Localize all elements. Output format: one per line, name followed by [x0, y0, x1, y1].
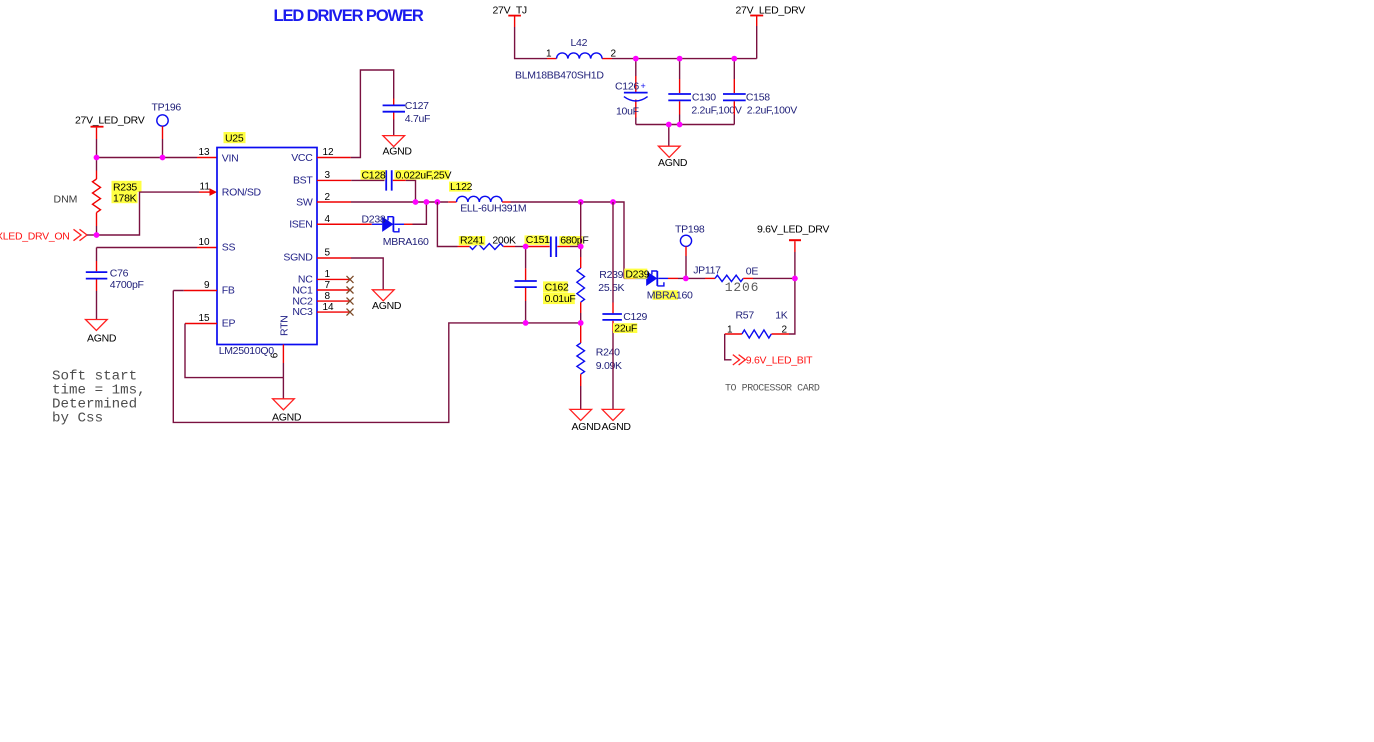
- svg-text:1K: 1K: [775, 310, 788, 322]
- note soft start: [52, 369, 146, 427]
- svg-text:4700pF: 4700pF: [110, 279, 144, 291]
- capacitor C126: [615, 59, 648, 125]
- wire bottom rail of input filter: [636, 124, 735, 126]
- wire FB net: [184, 290, 217, 292]
- junction dots output: [683, 276, 689, 282]
- resistor R240: [577, 323, 622, 410]
- svg-text:R235: R235: [113, 181, 137, 193]
- svg-text:0.01uF: 0.01uF: [545, 293, 576, 305]
- resistor R57: [725, 310, 788, 338]
- svg-text:MBRA160: MBRA160: [383, 236, 429, 248]
- node 27V_LED_DRV (top right): [736, 5, 806, 59]
- svg-text:L122: L122: [450, 181, 473, 193]
- svg-text:10uF: 10uF: [616, 105, 639, 117]
- svg-text:RON/SD: RON/SD: [222, 186, 262, 198]
- wire BST net: [317, 179, 351, 181]
- capacitor C158: [723, 59, 797, 125]
- ground AGND (input filter): [658, 125, 688, 170]
- svg-text:2.2uF,100V: 2.2uF,100V: [747, 104, 797, 116]
- svg-text:9: 9: [204, 280, 210, 291]
- svg-text:ISEN: ISEN: [289, 219, 312, 231]
- junction dots VIN row: [94, 155, 100, 161]
- svg-text:C127: C127: [405, 100, 429, 112]
- svg-text:1: 1: [325, 269, 331, 280]
- svg-text:TP198: TP198: [675, 224, 705, 236]
- junction node XLED_DRV_ON: [94, 232, 100, 238]
- svg-text:2: 2: [782, 324, 788, 335]
- wire D239 to JP117: [668, 277, 678, 279]
- svg-text:22uF: 22uF: [614, 322, 637, 334]
- diode D239: [624, 268, 693, 301]
- svg-text:AGND: AGND: [602, 421, 632, 433]
- svg-text:RTN: RTN: [279, 316, 291, 337]
- inductor L42: [515, 37, 617, 81]
- svg-text:VIN: VIN: [222, 153, 239, 165]
- svg-text:7: 7: [325, 280, 331, 291]
- svg-text:12: 12: [323, 147, 335, 158]
- svg-text:C130: C130: [692, 91, 716, 103]
- ground AGND (C127): [383, 136, 413, 158]
- wire EP net: [185, 323, 217, 325]
- svg-text:BLM18BB470SH1D: BLM18BB470SH1D: [515, 69, 604, 81]
- svg-text:TP196: TP196: [152, 102, 182, 114]
- svg-text:+: +: [641, 81, 646, 91]
- svg-text:ELL-6UH391M: ELL-6UH391M: [460, 202, 526, 214]
- svg-text:C128: C128: [362, 169, 386, 181]
- svg-text:9.09K: 9.09K: [596, 360, 622, 372]
- svg-text:27V_LED_DRV: 27V_LED_DRV: [75, 115, 145, 127]
- svg-text:FB: FB: [222, 285, 235, 297]
- ground AGND (R240): [570, 409, 601, 433]
- svg-text:D239: D239: [625, 268, 649, 280]
- svg-text:0.022uF,25V: 0.022uF,25V: [396, 169, 452, 181]
- junction dots top rail: [633, 56, 639, 62]
- node 9.6V_LED_DRV: [757, 224, 829, 279]
- junction dots SW row: [413, 199, 419, 205]
- pin stubs NC no-connects: [317, 276, 354, 316]
- svg-text:6: 6: [269, 352, 280, 358]
- resistor R239: [577, 202, 625, 323]
- capacitor C129: [602, 202, 647, 409]
- svg-text:C126: C126: [615, 80, 639, 92]
- testpoint TP198: [675, 224, 705, 279]
- svg-text:15: 15: [199, 313, 211, 324]
- svg-text:5: 5: [325, 248, 331, 259]
- ground AGND (C76): [86, 320, 117, 345]
- resistor JP117 0E: [693, 265, 795, 295]
- svg-text:0E: 0E: [746, 266, 759, 278]
- svg-text:LM25010Q0: LM25010Q0: [219, 345, 275, 357]
- svg-text:680pF: 680pF: [560, 235, 588, 247]
- op-amp U25 LM25010 regulator body: [217, 132, 317, 358]
- svg-text:AGND: AGND: [572, 421, 602, 433]
- svg-text:9.6V_LED_BIT: 9.6V_LED_BIT: [746, 354, 813, 366]
- svg-text:AGND: AGND: [87, 332, 117, 344]
- resistor R235 (DNM): [54, 158, 142, 236]
- pin number labels U25 right: [323, 147, 335, 313]
- svg-text:200K: 200K: [492, 235, 516, 247]
- svg-text:EP: EP: [222, 318, 236, 330]
- svg-text:C151: C151: [526, 234, 550, 246]
- svg-text:9.6V_LED_DRV: 9.6V_LED_DRV: [757, 224, 829, 236]
- wire SW output node: [511, 202, 625, 278]
- svg-text:178K: 178K: [113, 193, 137, 205]
- svg-text:NC3: NC3: [292, 306, 313, 318]
- wire R57 to off-page: [725, 334, 732, 360]
- svg-text:AGND: AGND: [272, 411, 302, 423]
- svg-text:11: 11: [200, 182, 211, 193]
- svg-text:R239: R239: [599, 269, 623, 281]
- svg-text:4: 4: [325, 214, 331, 225]
- wire RTN pin 6: [282, 345, 284, 364]
- svg-text:SS: SS: [222, 242, 236, 254]
- wire SW net: [317, 201, 351, 203]
- junction dots bottom rail: [666, 122, 672, 128]
- node 27V_LED_DRV (left): [75, 115, 145, 158]
- svg-text:C76: C76: [110, 267, 129, 279]
- wire ISEN to SW: [404, 223, 413, 225]
- svg-text:SW: SW: [296, 196, 313, 208]
- svg-text:C129: C129: [623, 311, 647, 323]
- svg-text:1: 1: [546, 49, 552, 60]
- svg-text:VCC: VCC: [291, 152, 313, 164]
- svg-text:AGND: AGND: [658, 157, 688, 169]
- inductor L122: [449, 181, 526, 214]
- svg-text:8: 8: [325, 291, 331, 302]
- svg-text:3: 3: [325, 170, 331, 181]
- wire SGND net: [317, 257, 351, 259]
- svg-text:JP117: JP117: [693, 265, 721, 277]
- svg-text:XLED_DRV_ON: XLED_DRV_ON: [0, 231, 70, 243]
- input arrow RON/SD: [210, 188, 218, 196]
- svg-text:LED DRIVER POWER: LED DRIVER POWER: [274, 7, 424, 25]
- svg-text:27V_LED_DRV: 27V_LED_DRV: [736, 5, 806, 17]
- ground AGND (C129): [602, 409, 632, 433]
- svg-text:by Css: by Css: [52, 410, 103, 426]
- ground AGND (SGND): [372, 290, 402, 312]
- resistor R241: [458, 235, 526, 250]
- svg-text:25.5K: 25.5K: [598, 282, 624, 294]
- svg-text:1: 1: [727, 324, 733, 335]
- capacitor C151: [525, 234, 589, 257]
- svg-text:AGND: AGND: [372, 300, 402, 312]
- svg-text:R241: R241: [460, 235, 484, 247]
- svg-text:DNM: DNM: [54, 193, 78, 205]
- node 27V_TJ: [493, 5, 527, 28]
- capacitor C162: [515, 247, 576, 323]
- svg-text:13: 13: [199, 147, 211, 158]
- svg-text:BST: BST: [293, 175, 313, 187]
- wire VIN row: [97, 157, 198, 159]
- svg-text:R240: R240: [596, 347, 620, 359]
- wire L42 to 27V_LED_DRV rail: [612, 58, 757, 60]
- wire VCC net: [317, 157, 351, 159]
- wire ISEN net: [317, 223, 372, 225]
- svg-text:C162: C162: [545, 282, 569, 294]
- svg-text:MBRA160: MBRA160: [647, 289, 693, 301]
- capacitor C128: [361, 169, 452, 202]
- svg-text:TO PROCESSOR CARD: TO PROCESSOR CARD: [725, 383, 820, 394]
- off-page connector XLED_DRV_ON: [0, 229, 97, 242]
- svg-text:L42: L42: [571, 37, 588, 49]
- svg-text:SGND: SGND: [283, 251, 313, 263]
- svg-text:U25: U25: [225, 132, 244, 144]
- wire output node to D239: [624, 277, 627, 279]
- wire RON/SD jog: [97, 192, 200, 235]
- svg-text:1206: 1206: [725, 280, 759, 295]
- wire SS row: [97, 248, 198, 262]
- off-page connector 9.6V_LED_BIT: [733, 354, 813, 366]
- testpoint TP196: [152, 102, 182, 158]
- svg-text:2: 2: [611, 49, 617, 60]
- wire SW to R241 row: [437, 202, 457, 247]
- svg-text:C158: C158: [746, 91, 770, 103]
- capacitor C127: [383, 99, 431, 136]
- wire 9.6V rail down to R57: [789, 278, 795, 334]
- svg-text:4.7uF: 4.7uF: [405, 113, 430, 125]
- ground AGND (RTN/EP): [272, 378, 302, 424]
- svg-text:14: 14: [323, 302, 335, 313]
- capacitor C130: [668, 59, 742, 125]
- svg-text:AGND: AGND: [383, 146, 413, 158]
- svg-text:10: 10: [199, 237, 211, 248]
- diode D238: [362, 214, 430, 248]
- svg-text:R57: R57: [736, 310, 755, 322]
- wire 27V_TJ to L42: [515, 27, 547, 59]
- pin number labels U25 left: [199, 147, 211, 324]
- svg-text:D238: D238: [362, 214, 386, 226]
- junction dots feedback: [523, 244, 529, 250]
- capacitor C76: [86, 261, 144, 320]
